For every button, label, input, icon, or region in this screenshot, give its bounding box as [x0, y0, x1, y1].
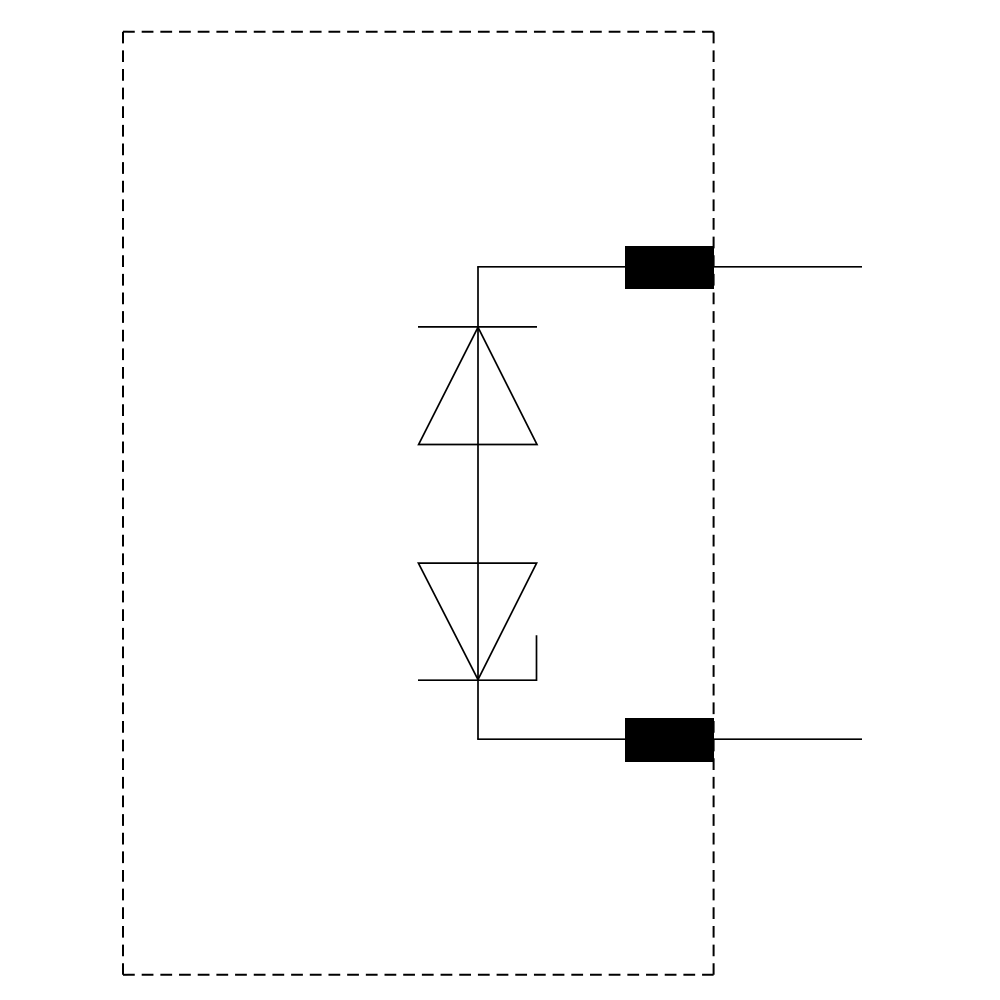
diode D1 (pointing up): [418, 327, 537, 445]
terminal pad (bottom, filled): [625, 718, 714, 762]
dashed module boundary box: [123, 32, 714, 975]
wire: bottom horizontal from node to terminal and out: [477, 738, 862, 740]
terminal pad (top, filled): [625, 246, 714, 289]
wire: top horizontal from node to terminal and out: [477, 266, 862, 268]
wire: vertical bus through both diodes: [477, 267, 479, 739]
diode D2 (pointing down, bent cathode bar): [418, 563, 537, 680]
